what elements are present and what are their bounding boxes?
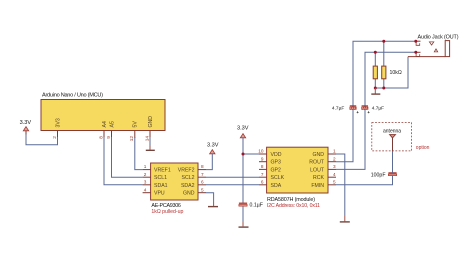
svg-text:3V3: 3V3 (55, 118, 61, 127)
pin 3V3 of MCU (52, 118, 61, 139)
capacitor C2 0.1uF (239, 203, 263, 209)
svg-text:Audio Jack (OUT): Audio Jack (OUT) (418, 35, 459, 41)
junction R2 top on ROUT line (382, 40, 385, 43)
pin 6 SDA (259, 179, 282, 188)
svg-text:GP3: GP3 (271, 160, 281, 166)
svg-text:SDA2: SDA2 (181, 183, 195, 189)
pin 7 SCL2 (182, 172, 206, 181)
svg-text:GND: GND (183, 191, 195, 197)
svg-text:3.3V: 3.3V (207, 143, 219, 149)
svg-text:VREF2: VREF2 (178, 168, 195, 174)
wire 5V to VREF1 (135, 137, 143, 170)
svg-text:GND: GND (148, 116, 154, 128)
pin 7 SCLK (259, 172, 285, 181)
svg-text:3: 3 (333, 164, 336, 169)
svg-text:SCL2: SCL2 (182, 175, 195, 181)
ground (RDA5807 GND pin 1) (336, 154, 350, 222)
svg-text:2: 2 (144, 172, 147, 177)
svg-text:3: 3 (144, 179, 147, 184)
svg-text:SDA: SDA (271, 183, 282, 189)
svg-text:8: 8 (261, 164, 264, 169)
junction rail R2 (382, 87, 385, 90)
svg-text:GP2: GP2 (271, 167, 281, 173)
pin 4 VPU (n.c.) (143, 187, 165, 196)
pin 5V of MCU (129, 121, 138, 142)
pin 9 GP3 (259, 156, 281, 165)
svg-text:10: 10 (258, 149, 264, 154)
pin 6 SDA2 (181, 179, 206, 188)
pin 8 VREF2 (178, 164, 206, 173)
ring contact (416, 51, 421, 53)
svg-text:3.3V: 3.3V (237, 126, 249, 132)
junction VDD node (242, 153, 245, 156)
capacitor C4 4.7uF (right, on LOUT line) (362, 105, 385, 113)
wire LOUT up to jack ring (336, 52, 416, 169)
svg-text:4.7µF: 4.7µF (332, 105, 344, 111)
pin 3 LOUT (310, 164, 336, 173)
pin 2 SCL1 (143, 172, 167, 181)
FM radio U3 RDA5807H (267, 147, 328, 209)
svg-text:6: 6 (261, 179, 264, 184)
svg-text:8: 8 (201, 164, 204, 169)
svg-text:12: 12 (129, 136, 134, 142)
svg-text:option: option (416, 145, 430, 151)
junction rail R1 (374, 87, 377, 90)
pin 8 GP2 (259, 164, 281, 173)
resistor R1 10k (left) (373, 52, 377, 88)
resistor R2 10k (right) (382, 41, 402, 88)
pin 10 VDD (258, 149, 281, 158)
svg-text:Arduino Nano / Uno (MCU): Arduino Nano / Uno (MCU) (42, 93, 103, 99)
wire ROUT up to jack tip (336, 41, 416, 162)
svg-text:8: 8 (98, 136, 103, 139)
ground (C2) (239, 206, 249, 227)
sleeve body (445, 41, 449, 57)
wire 3.3V to VDD and bypass cap (242, 138, 244, 203)
svg-text:7: 7 (261, 172, 264, 177)
pin 5 GND (183, 187, 206, 196)
junction jack tip (414, 40, 417, 43)
svg-text:1kΩ pulled-up: 1kΩ pulled-up (151, 209, 183, 215)
level shifter U2 AE-PCA9306 (151, 163, 198, 215)
svg-text:9: 9 (106, 136, 111, 139)
svg-text:VREF1: VREF1 (154, 168, 171, 174)
pin 5 FMIN (311, 179, 336, 188)
sleeve wire (408, 56, 445, 58)
svg-text:GND: GND (312, 152, 324, 158)
wire SDA2 to SDA (206, 184, 259, 186)
pin GND of MCU (144, 116, 153, 141)
pin 3 SDA1 (143, 179, 168, 188)
svg-text:A4: A4 (102, 121, 108, 127)
pin 4 RCK (n.c.) (313, 172, 336, 181)
junction R1 top on LOUT line (374, 51, 377, 54)
svg-text:9: 9 (261, 156, 264, 161)
svg-text:A5: A5 (109, 121, 115, 127)
svg-text:LOUT: LOUT (310, 167, 325, 173)
svg-text:7: 7 (201, 172, 204, 177)
MCU block U-Arduino (41, 93, 165, 131)
svg-text:6: 6 (201, 179, 204, 184)
svg-text:10kΩ: 10kΩ (390, 70, 402, 76)
tip contact (416, 40, 421, 42)
svg-text:5V: 5V (133, 121, 139, 128)
svg-text:5: 5 (201, 187, 204, 192)
capacitor C5 100pF (371, 172, 397, 178)
svg-text:5: 5 (333, 179, 336, 184)
svg-text:100pF: 100pF (371, 172, 386, 178)
svg-text:antenna: antenna (383, 128, 401, 134)
svg-text:3.3V: 3.3V (20, 120, 32, 126)
wire cap to antenna (392, 138, 394, 173)
svg-text:14: 14 (144, 136, 149, 142)
svg-text:I2C Address: 0x10, 0x11: I2C Address: 0x10, 0x11 (267, 203, 320, 209)
supply 3.3V (VDD) (237, 126, 249, 138)
svg-text:2: 2 (333, 156, 336, 161)
svg-text:RCK: RCK (313, 175, 324, 181)
pin 1 VREF1 (143, 164, 171, 173)
svg-text:1: 1 (333, 149, 336, 154)
pin A5 of MCU (106, 121, 115, 139)
audio jack J1 (OUT) (408, 35, 459, 57)
svg-text:SCL1: SCL1 (154, 175, 167, 181)
svg-text:1: 1 (144, 164, 147, 169)
svg-text:4.7µF: 4.7µF (372, 105, 384, 111)
svg-text:4: 4 (333, 172, 336, 177)
svg-text:VDD: VDD (271, 152, 282, 158)
capacitor C3 4.7uF (left, on ROUT line) (332, 105, 359, 113)
supply 3.3V (VREF2) (207, 143, 219, 154)
ground (PCA9306 GND pin 5) (206, 193, 218, 207)
wire A4 to SDA1 (104, 137, 143, 185)
ground (MCU GND pin 14) (146, 137, 155, 150)
pin A4 of MCU (98, 121, 107, 139)
svg-text:SDA1: SDA1 (154, 183, 168, 189)
wire A5 to SCL1 (112, 137, 143, 177)
wire SCL2 to SCLK (206, 176, 259, 178)
svg-text:2: 2 (52, 136, 57, 139)
pin 1 GND (312, 149, 336, 158)
svg-text:VPU: VPU (154, 191, 165, 197)
svg-text:AE-PCA9306: AE-PCA9306 (151, 203, 181, 209)
wire FMIN to coupling cap (336, 176, 393, 185)
ground (output rail) (371, 88, 380, 94)
svg-text:ROUT: ROUT (309, 160, 325, 166)
junction jack ring (414, 51, 417, 54)
svg-text:0.1µF: 0.1µF (250, 203, 263, 209)
wire resistor bottoms to jack sleeve / ground rail (375, 57, 408, 88)
svg-text:4: 4 (144, 187, 147, 192)
supply 3.3V (left) (20, 120, 32, 135)
wire VREF2 to 3.3V (206, 154, 212, 170)
svg-text:FMIN: FMIN (311, 183, 324, 189)
pin 2 ROUT (309, 156, 336, 165)
svg-text:SCLK: SCLK (271, 175, 285, 181)
wire 3V3 to 3.3V supply (26, 135, 58, 145)
antenna ANT1 (optional) (372, 123, 430, 151)
